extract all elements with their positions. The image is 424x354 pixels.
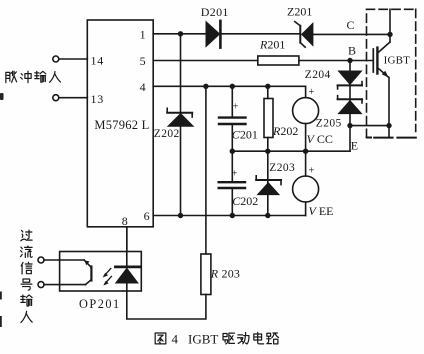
- wire pin13: [59, 97, 88, 99]
- svg-text:5: 5: [140, 54, 146, 68]
- node junction midrail/Z203: [265, 149, 270, 154]
- zener Z203: [267, 151, 269, 215]
- wire R203 branch vertical: [205, 86, 207, 254]
- text overcurrent 号: [21, 279, 32, 290]
- node junction bottomrail/Z202: [178, 213, 183, 218]
- caption 路: [267, 333, 279, 344]
- svg-text:4: 4: [172, 332, 179, 347]
- svg-text:+: +: [309, 87, 315, 98]
- node junction midrail/C202: [230, 149, 235, 154]
- input terminal pin13: [53, 95, 59, 101]
- node junction rail/R202: [265, 84, 270, 89]
- svg-text:C202: C202: [232, 194, 258, 208]
- resistor R203: [201, 254, 211, 295]
- text pulse input 入: [50, 71, 61, 82]
- resistor R202: [267, 86, 269, 98]
- svg-text:V EE: V EE: [309, 204, 334, 218]
- capacitor C202: [231, 151, 233, 182]
- bottom rail pin6 wire: [153, 215, 305, 217]
- wire pin8: [126, 227, 128, 252]
- node junction E chain: [347, 123, 352, 128]
- svg-text:C201: C201: [232, 128, 258, 142]
- node junction bottomrail/Z203: [265, 213, 270, 218]
- dashed module box: [367, 9, 416, 137]
- node junction rail/C201: [230, 84, 235, 89]
- wire Z202 branch: [180, 34, 182, 216]
- svg-text:+: +: [233, 102, 239, 113]
- wire C201/C202 branch: [231, 86, 233, 117]
- IC U201 M57962L body: [87, 20, 153, 227]
- svg-text:R202: R202: [272, 124, 298, 138]
- svg-text:Z201: Z201: [287, 5, 312, 19]
- mid rail wire: [232, 150, 350, 152]
- wire R203 bottom loop: [127, 291, 206, 319]
- svg-text:IGBT: IGBT: [384, 55, 411, 67]
- zener Z201: [302, 23, 313, 45]
- wire collector terminal: [389, 9, 391, 42]
- input terminal top: [38, 257, 44, 263]
- svg-text:Z204: Z204: [305, 69, 331, 81]
- caption 电: [254, 332, 264, 344]
- phototransistor OP201: [60, 259, 84, 261]
- voltage source VCC: [293, 98, 319, 124]
- wire E horizontal: [350, 125, 389, 127]
- zener Z202: [168, 114, 193, 127]
- svg-text:IGBT: IGBT: [188, 332, 218, 347]
- voltage source VEE: [305, 151, 307, 176]
- scan artifact marks: [0, 93, 4, 327]
- node junction pin1/Z202: [178, 31, 183, 36]
- text overcurrent 信: [21, 262, 32, 274]
- text overcurrent 输: [21, 295, 32, 306]
- node junction midrail/VCC: [303, 149, 308, 154]
- svg-text:6: 6: [144, 209, 150, 223]
- diode D201: [206, 22, 220, 47]
- svg-text:V CC: V CC: [307, 132, 333, 146]
- svg-text:R 203: R 203: [210, 267, 240, 281]
- node B junction: [347, 58, 352, 63]
- node junction collector: [387, 32, 392, 37]
- caption 动: [238, 332, 249, 344]
- input terminal pin14: [53, 56, 59, 62]
- svg-text:M57962 L: M57962 L: [94, 118, 149, 132]
- text pulse input 输: [35, 71, 46, 82]
- svg-text:E: E: [351, 139, 358, 153]
- text pulse input 冲: [21, 71, 32, 82]
- resistor R201: [258, 56, 299, 65]
- wire pin5 to B: [153, 60, 258, 62]
- svg-text:Z205: Z205: [316, 118, 342, 130]
- node junction bottomrail/C202: [230, 213, 235, 218]
- wire pin4 rail: [153, 86, 305, 97]
- wire pin14: [59, 58, 88, 60]
- text overcurrent 流: [21, 246, 33, 257]
- text overcurrent 入: [21, 311, 32, 322]
- svg-text:4: 4: [140, 80, 146, 94]
- capacitor C201: [219, 116, 246, 118]
- svg-text:R201: R201: [259, 38, 285, 52]
- svg-text:+: +: [309, 166, 315, 177]
- LED OP201: [126, 227, 128, 266]
- optocoupler OP201 box: [60, 252, 142, 292]
- svg-text:1: 1: [140, 28, 146, 42]
- svg-text:Z202: Z202: [154, 128, 180, 140]
- svg-text:14: 14: [91, 54, 105, 68]
- svg-text:B: B: [348, 43, 356, 57]
- svg-text:+: +: [232, 169, 238, 180]
- svg-text:D201: D201: [201, 5, 229, 19]
- caption 驱: [223, 333, 235, 344]
- svg-text:8: 8: [122, 214, 128, 228]
- svg-text:OP201: OP201: [79, 297, 121, 311]
- node junction E emitter: [386, 123, 391, 128]
- svg-text:C: C: [347, 18, 355, 32]
- zener Z204: [339, 71, 362, 84]
- wire B zener chain: [349, 61, 351, 152]
- light arrows: [104, 268, 110, 275]
- wire pin1 to C (top rail): [153, 33, 206, 35]
- node junction rail/R203line: [203, 84, 208, 89]
- text pulse input 脉: [6, 71, 17, 82]
- caption 图: [155, 333, 166, 344]
- svg-text:Z203: Z203: [269, 162, 295, 174]
- zener Z205: [339, 101, 362, 114]
- input terminal bottom: [38, 282, 44, 288]
- text overcurrent 过: [21, 230, 32, 241]
- svg-text:13: 13: [91, 92, 105, 106]
- transistor IGBT: [377, 42, 390, 53]
